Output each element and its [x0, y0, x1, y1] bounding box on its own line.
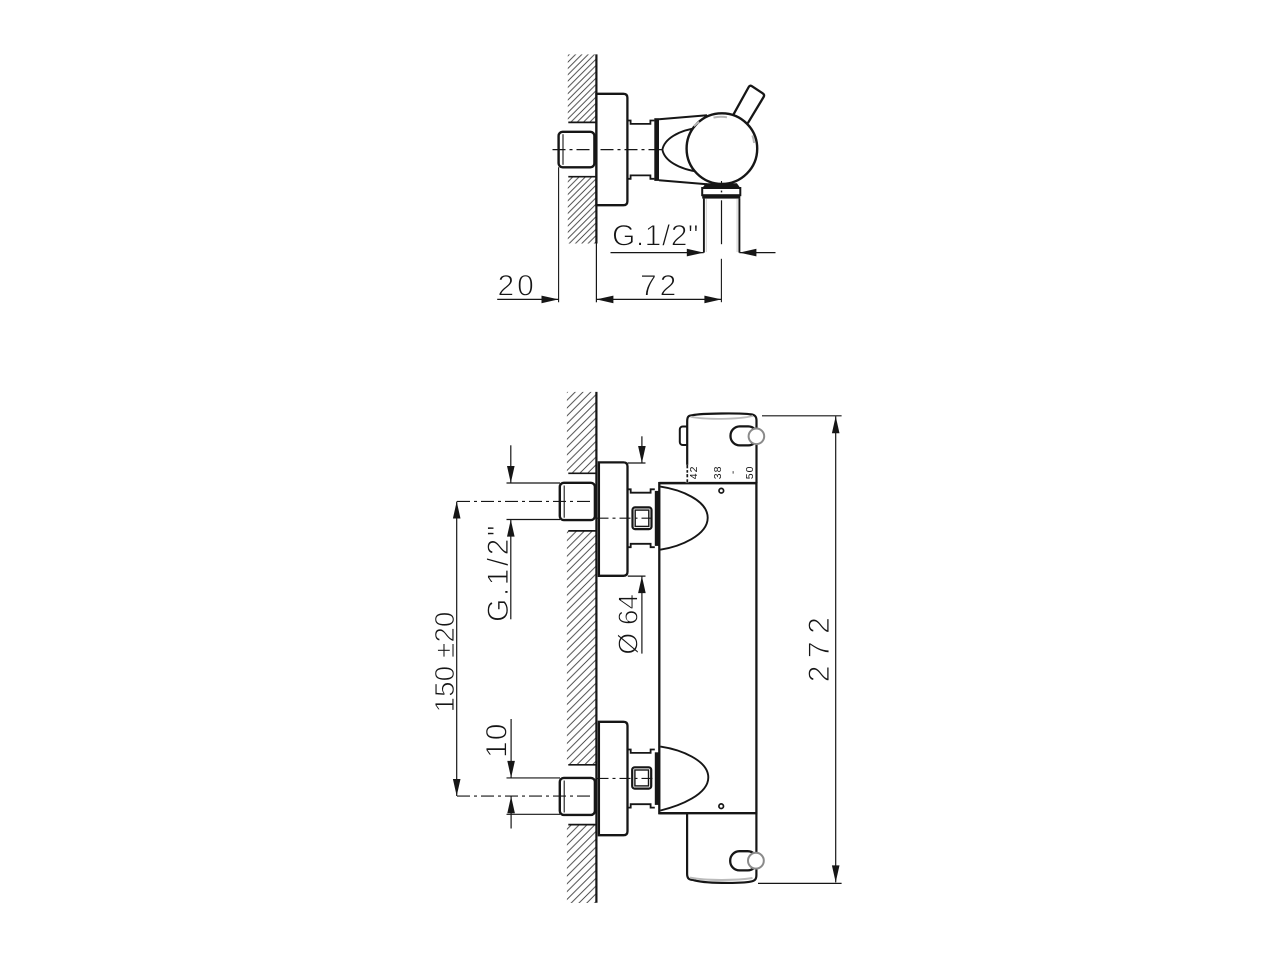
lower hex inner facet	[563, 781, 565, 813]
upper square fitting	[633, 507, 652, 529]
centerline extension for 72	[720, 259, 722, 302]
cone top silhouette line	[659, 115, 707, 119]
neck bottom profile	[627, 175, 654, 178]
dark ring	[654, 118, 659, 181]
lower square inner	[635, 770, 649, 786]
outlet nut white band	[702, 188, 740, 195]
screw dot upper	[719, 488, 724, 493]
dia64 ext line bottom	[628, 575, 646, 577]
upper supply tail bottom edge	[507, 519, 561, 521]
lower union centerline	[598, 777, 659, 779]
arrow right at pipe left	[687, 249, 704, 257]
72 arrow left	[596, 296, 613, 304]
pipe centerline dash-dot	[721, 181, 723, 183]
72 arrow right	[704, 296, 721, 304]
svg-text:10: 10	[480, 723, 513, 758]
escutcheon flange	[596, 94, 627, 205]
wall hatch upper band bottom line	[568, 121, 596, 123]
upper square inner	[635, 510, 649, 526]
body main rect	[659, 483, 756, 813]
top cap	[687, 413, 756, 483]
lower supply tail top edge	[507, 777, 561, 779]
wall hatch band C	[567, 825, 597, 903]
dia64 arrow down	[638, 446, 646, 463]
lower square fitting	[632, 767, 651, 788]
screw dot lower	[719, 804, 724, 809]
wall face line	[595, 54, 597, 243]
lower hex block	[560, 778, 595, 815]
150 dim line	[456, 502, 458, 797]
svg-text:Ø 64: Ø 64	[613, 594, 644, 655]
svg-text:38: 38	[712, 466, 724, 480]
lower supply centerline	[457, 795, 596, 797]
upper trumpet arc	[660, 487, 707, 550]
pipe inner gray lines	[705, 199, 707, 252]
272 arrow up	[832, 416, 840, 433]
lower dark ring	[655, 752, 659, 805]
lower supply tail bottom edge	[507, 813, 561, 815]
top grip capsule	[731, 426, 758, 445]
outlet trapezoid dark band	[702, 183, 740, 188]
handle lever	[734, 86, 765, 124]
svg-text:G.1/2": G.1/2"	[482, 523, 515, 622]
wall hatch lower band	[568, 177, 597, 244]
G.1/2 dim line lower seg + underline	[510, 520, 512, 620]
bottom cap	[687, 813, 756, 883]
supply pipe block behind wall	[559, 132, 595, 168]
svg-text:50: 50	[744, 466, 756, 480]
upper hex block	[560, 483, 595, 520]
wall hatch lower band top line	[568, 176, 596, 178]
svg-text:272: 272	[803, 610, 836, 683]
hatch B bottom line	[568, 764, 596, 766]
upper union centerline	[598, 517, 659, 519]
neck top profile	[627, 121, 654, 124]
20 dimension line	[497, 298, 558, 300]
272 arrow down	[832, 865, 840, 882]
ball body	[687, 113, 758, 184]
upper neck bottom profile	[628, 544, 655, 547]
svg-text:72: 72	[640, 269, 679, 302]
wall face extension line down to dims	[595, 244, 597, 303]
gray scale numbers	[688, 466, 756, 480]
outlet pipe right edge	[738, 199, 740, 253]
bottom cap gray shading	[690, 878, 753, 880]
horizontal centerline	[553, 149, 662, 151]
dia64 dim line upper seg	[641, 436, 643, 463]
wall hatch band A	[567, 392, 597, 473]
upper hex inner facet	[563, 486, 565, 518]
scale index ticks (dashed cap edge)	[686, 465, 689, 483]
trumpet curve	[662, 128, 699, 172]
arrow tail right	[739, 252, 775, 254]
left extension line	[558, 167, 560, 302]
10 dim line upper seg	[510, 719, 512, 778]
10 arrow down	[507, 761, 515, 778]
lower trumpet arc	[661, 747, 709, 811]
svg-text:20: 20	[498, 269, 537, 302]
hatch C top line	[568, 824, 596, 826]
upper neck top profile	[628, 489, 655, 492]
dia64 dim line lower seg + underline	[641, 576, 643, 654]
150 arrow down	[453, 779, 461, 796]
272 dim line	[835, 416, 837, 882]
top cap gray shading	[691, 416, 754, 419]
arrow left at pipe right	[739, 249, 756, 257]
10 arrow up	[507, 796, 515, 813]
top grip end circle	[749, 429, 765, 445]
10 dim line lower seg	[510, 796, 512, 828]
svg-text:150 ±20: 150 ±20	[429, 611, 460, 712]
wall face line (lower drawing)	[595, 392, 597, 903]
wall hatch band B	[567, 531, 597, 765]
cone bottom silhouette line	[659, 180, 707, 184]
outlet pipe left edge	[703, 199, 705, 253]
upper dark ring	[655, 491, 659, 546]
upper supply centerline	[457, 500, 596, 502]
72 dimension line	[596, 298, 721, 300]
272 ext line top	[762, 415, 842, 417]
20 arrow	[542, 296, 559, 304]
body top separation line	[659, 482, 756, 484]
ball gray highlights	[714, 116, 728, 119]
150 arrow up	[453, 502, 461, 519]
bottom grip capsule	[730, 851, 757, 870]
hatch A bottom line	[568, 472, 596, 474]
G.1/2 leader underline	[611, 252, 704, 254]
wall hatch upper band	[568, 54, 597, 122]
G.1/2 arrow up	[507, 520, 515, 537]
hatch B top line	[568, 530, 596, 532]
outlet dark band 2	[702, 195, 740, 198]
G.1/2 arrow down	[507, 466, 515, 483]
lower neck bottom profile	[628, 804, 655, 807]
272 ext line bottom	[758, 882, 842, 884]
lower neck top profile	[628, 750, 655, 753]
svg-text:42: 42	[688, 466, 700, 480]
G.1/2 dim line upper seg	[510, 445, 512, 483]
safety button on top cap	[680, 427, 689, 446]
body bottom separation line	[659, 812, 756, 814]
svg-text:G.1/2": G.1/2"	[612, 220, 699, 253]
upper escutcheon	[599, 462, 628, 575]
svg-text:-: -	[727, 470, 739, 474]
bottom grip end circle	[748, 853, 764, 869]
dia64 arrow up	[638, 576, 646, 593]
dia64 ext line top	[628, 462, 646, 464]
supply block inner facet line	[562, 134, 564, 165]
lower escutcheon	[599, 722, 628, 835]
upper supply tail top edge	[507, 482, 561, 484]
